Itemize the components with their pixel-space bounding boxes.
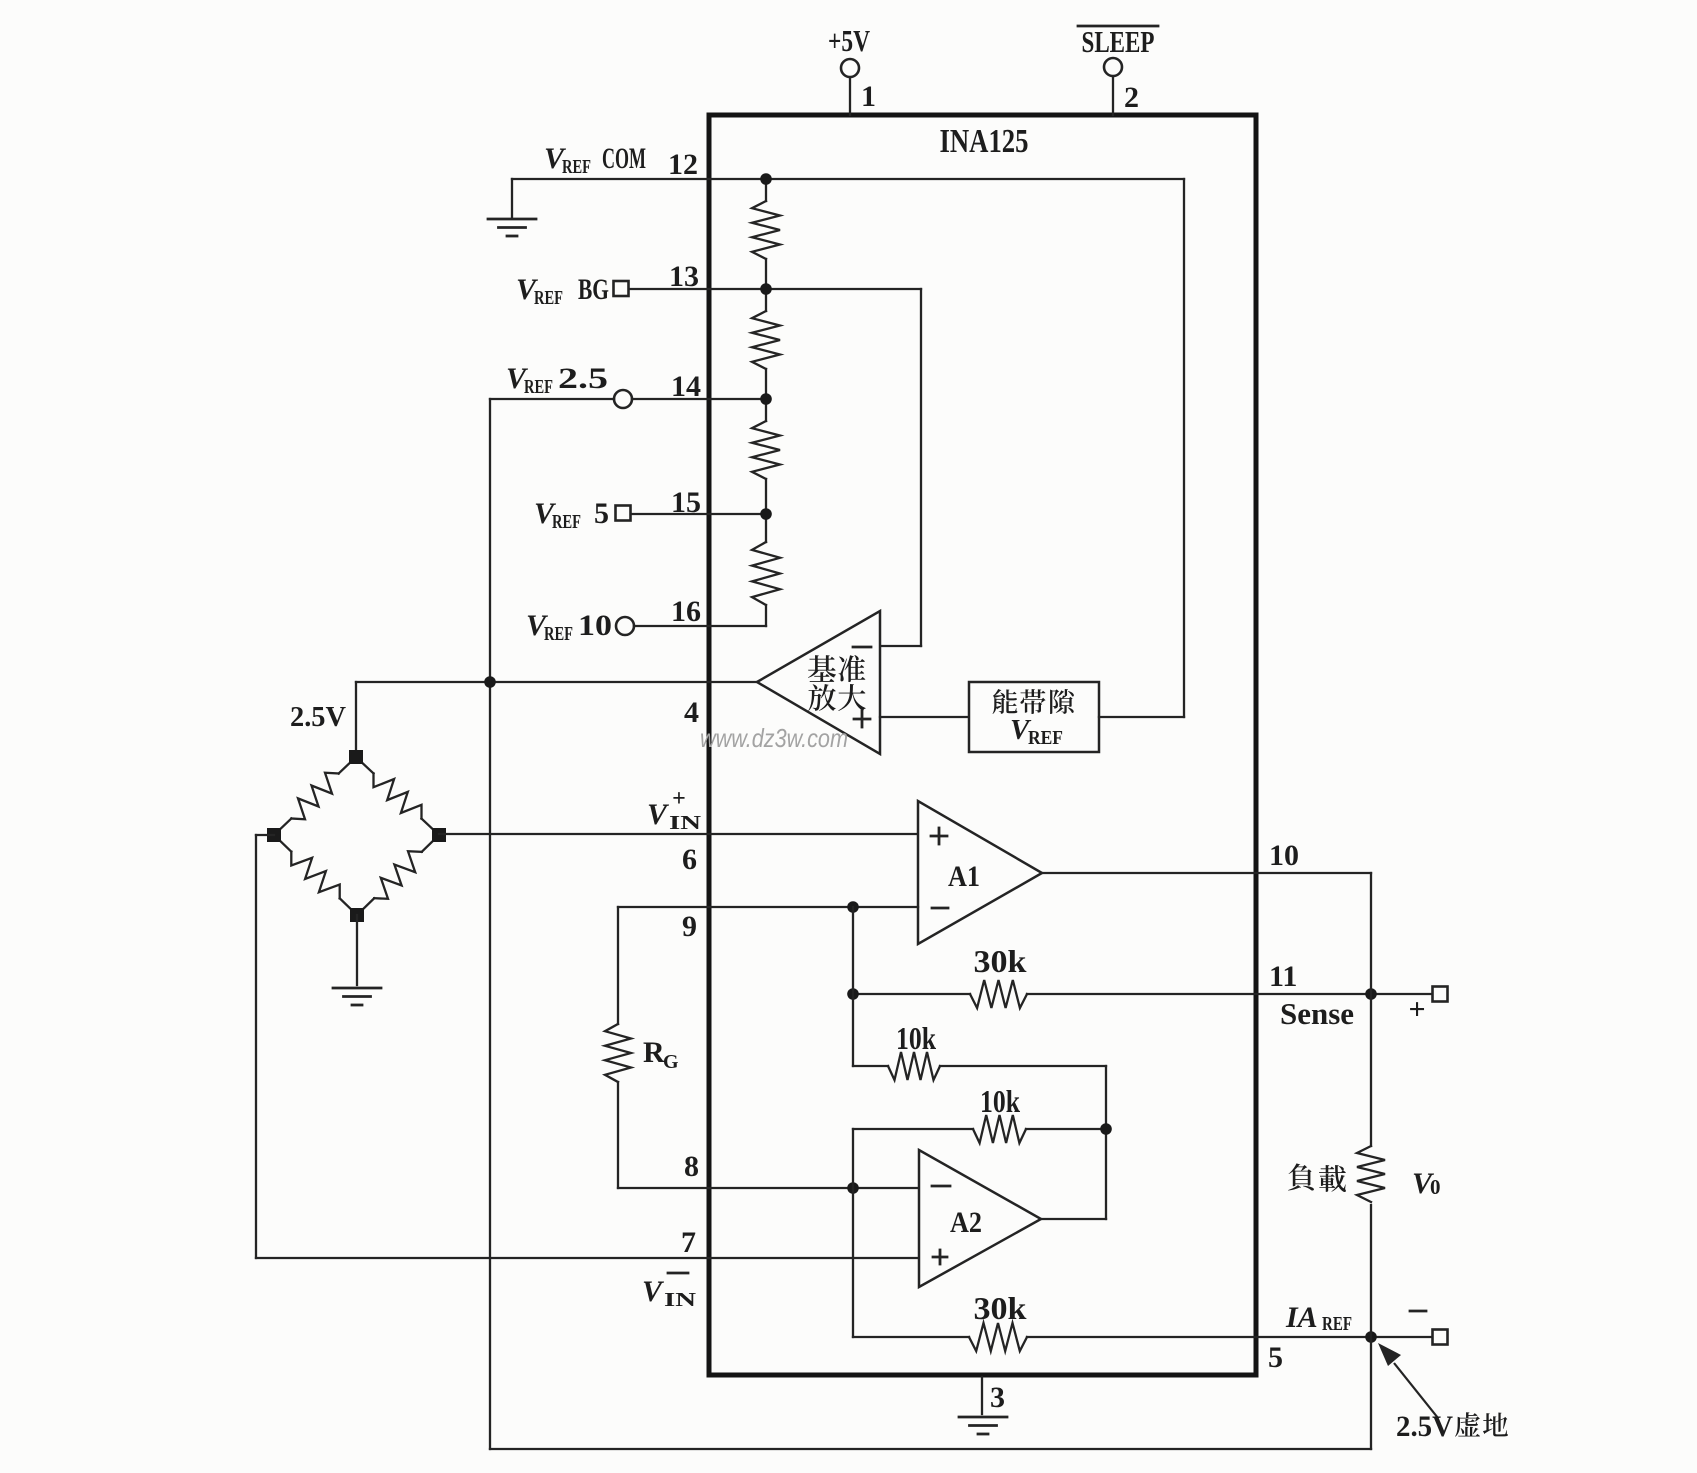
svg-text:+: + xyxy=(672,786,686,812)
svg-text:R: R xyxy=(643,1036,665,1069)
svg-text:5: 5 xyxy=(594,497,609,530)
svg-text:REF: REF xyxy=(562,156,591,178)
svg-text:REF: REF xyxy=(552,511,581,533)
svg-text:REF: REF xyxy=(534,287,563,309)
svg-text:0: 0 xyxy=(1430,1175,1441,1199)
svg-text:+: + xyxy=(1408,993,1425,1026)
svg-text:4: 4 xyxy=(684,696,699,729)
svg-text:G: G xyxy=(663,1051,679,1073)
svg-text:30k: 30k xyxy=(974,1290,1027,1326)
svg-text:10: 10 xyxy=(1269,839,1299,872)
svg-text:A1: A1 xyxy=(948,860,980,893)
svg-text:IN: IN xyxy=(669,812,702,834)
svg-text:www.dz3w.com: www.dz3w.com xyxy=(700,723,848,753)
svg-text:8: 8 xyxy=(684,1150,699,1183)
svg-text:REF: REF xyxy=(1322,1313,1352,1335)
svg-text:+5V: +5V xyxy=(828,23,870,58)
svg-text:IN: IN xyxy=(664,1289,697,1311)
svg-text:A2: A2 xyxy=(950,1206,982,1239)
svg-text:6: 6 xyxy=(682,843,697,876)
svg-text:15: 15 xyxy=(671,486,701,519)
svg-text:V: V xyxy=(647,798,670,831)
svg-text:5: 5 xyxy=(1268,1341,1283,1374)
svg-text:12: 12 xyxy=(668,148,698,181)
svg-text:INA125: INA125 xyxy=(940,123,1029,160)
svg-text:14: 14 xyxy=(671,370,701,403)
svg-text:REF: REF xyxy=(1028,727,1063,749)
svg-text:V: V xyxy=(642,1275,665,1308)
svg-text:10k: 10k xyxy=(896,1020,936,1056)
svg-text:BG: BG xyxy=(578,273,609,306)
svg-text:1: 1 xyxy=(861,80,876,113)
svg-text:3: 3 xyxy=(990,1381,1005,1414)
svg-text:7: 7 xyxy=(681,1226,696,1259)
svg-text:2.5: 2.5 xyxy=(558,362,608,395)
svg-text:SLEEP: SLEEP xyxy=(1082,24,1155,59)
svg-text:11: 11 xyxy=(1269,960,1297,993)
svg-text:2.5V: 2.5V xyxy=(290,701,346,733)
svg-text:Sense: Sense xyxy=(1280,996,1354,1031)
svg-text:2: 2 xyxy=(1124,81,1139,114)
svg-text:13: 13 xyxy=(669,260,699,293)
svg-text:REF: REF xyxy=(524,376,553,398)
svg-text:30k: 30k xyxy=(974,943,1027,979)
svg-text:COM: COM xyxy=(602,142,646,175)
svg-text:9: 9 xyxy=(682,910,697,943)
svg-text:10k: 10k xyxy=(980,1083,1020,1119)
svg-text:IA: IA xyxy=(1285,1301,1318,1334)
svg-text:16: 16 xyxy=(671,595,701,628)
svg-text:2.5V: 2.5V xyxy=(1396,1410,1453,1443)
svg-text:REF: REF xyxy=(544,623,573,645)
svg-text:10: 10 xyxy=(578,609,612,642)
